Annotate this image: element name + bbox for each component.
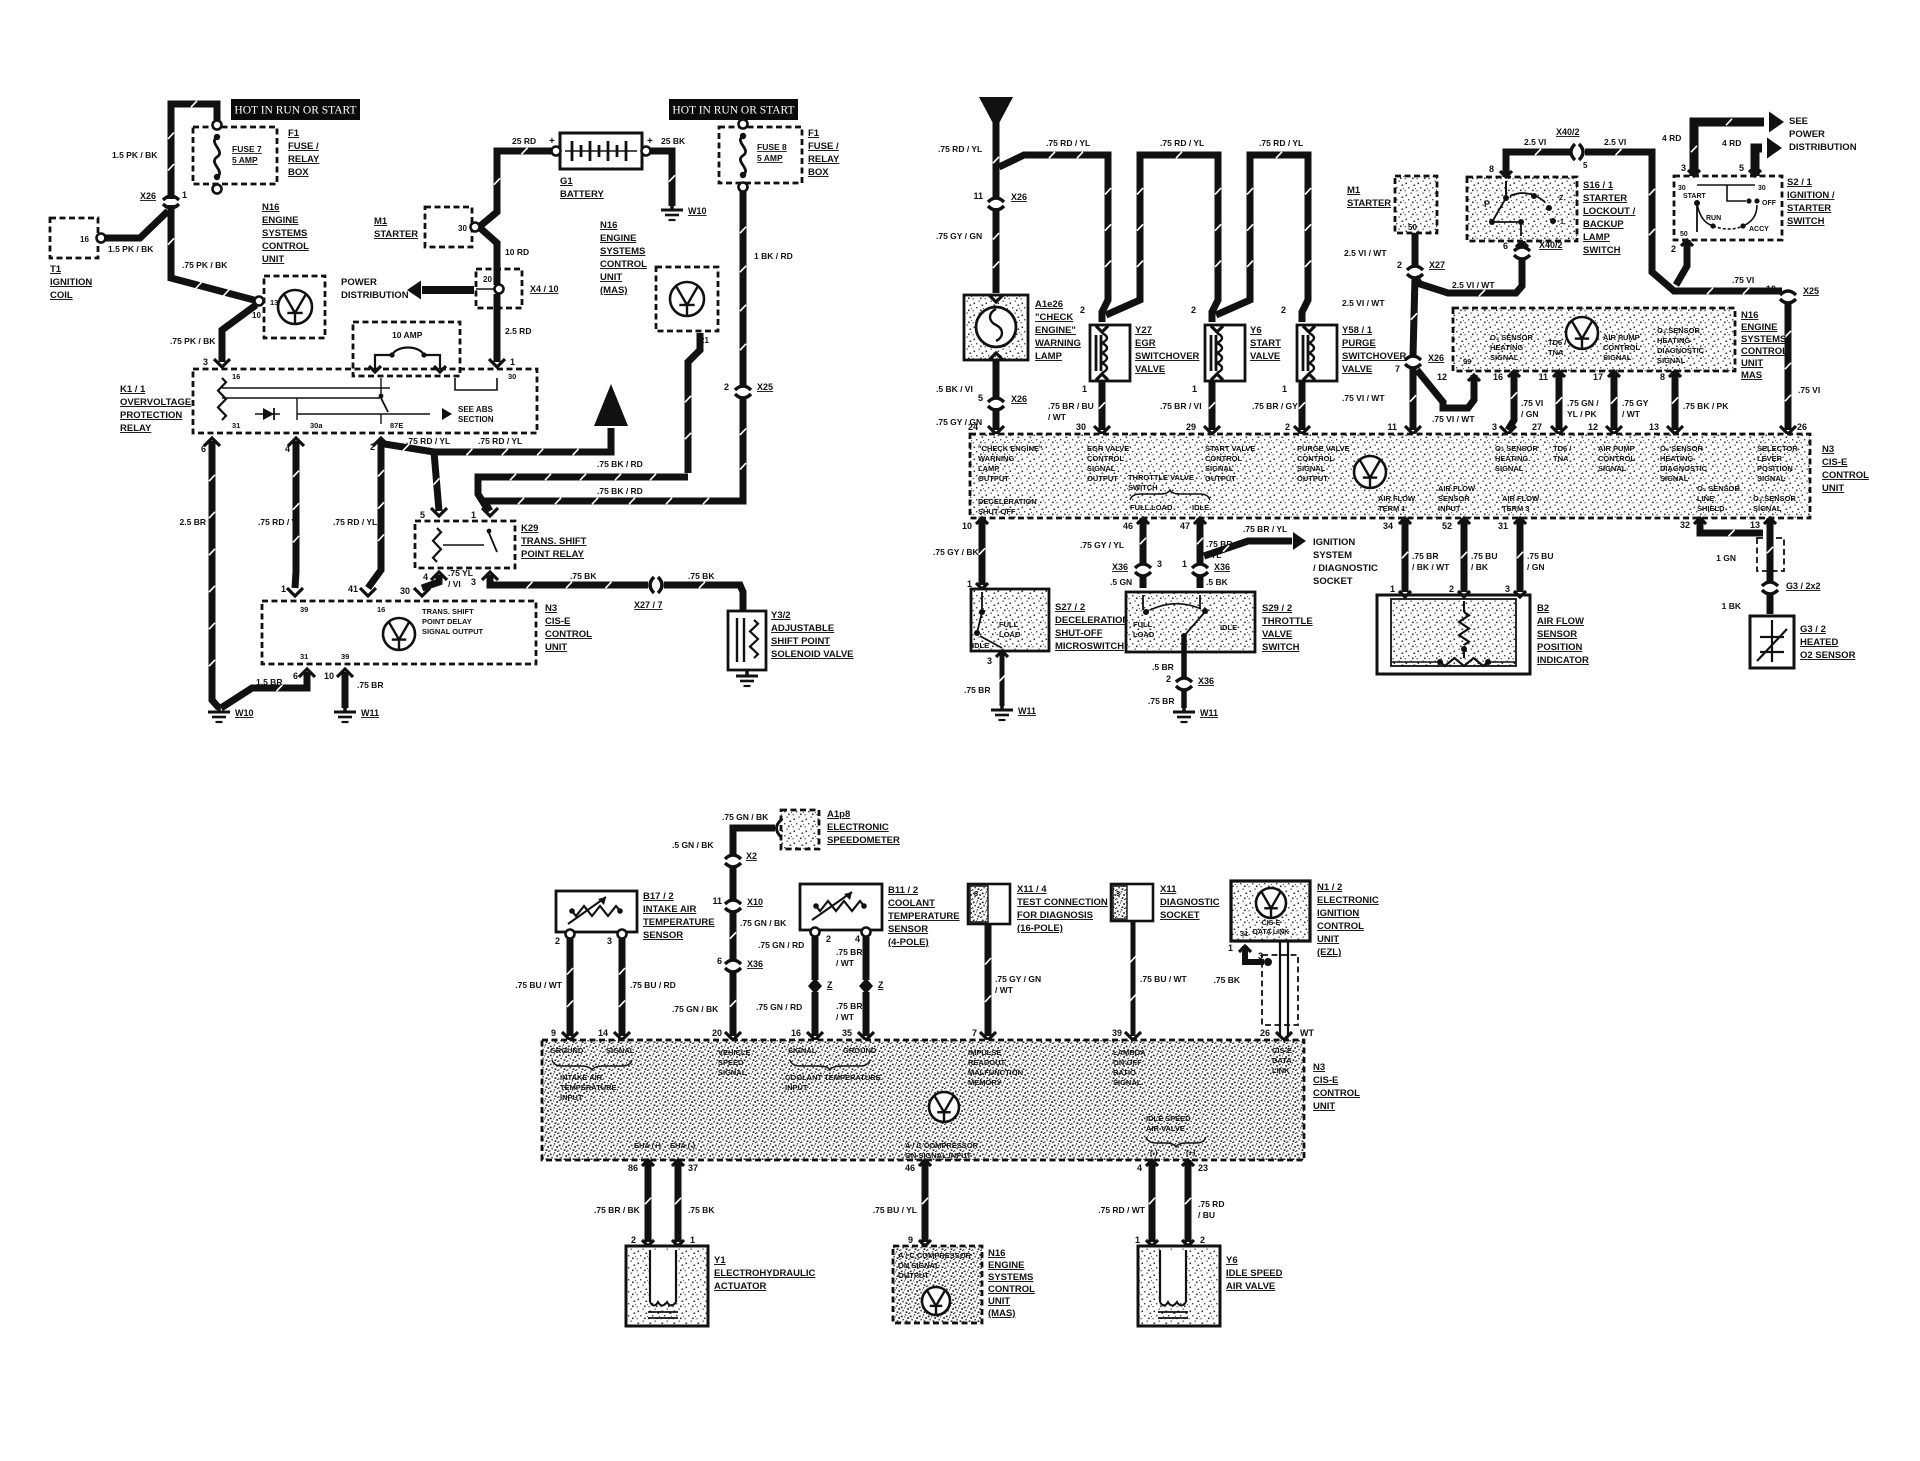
svg-text:SEE: SEE [1789, 116, 1808, 127]
svg-text:CIS-E: CIS-E [1272, 1046, 1292, 1055]
electrohydraulic actuator branch [642, 1160, 654, 1166]
svg-text:FULL LOAD: FULL LOAD [1130, 503, 1173, 512]
svg-text:COIL: COIL [50, 290, 73, 301]
starter lockout/backup lamp switch S16/1 [1467, 177, 1577, 241]
svg-text:CONTROL: CONTROL [1598, 454, 1635, 463]
svg-text:(EZL): (EZL) [1317, 947, 1341, 958]
svg-text:IGNITION /: IGNITION / [1787, 190, 1835, 201]
10 AMP fuse box [353, 322, 460, 376]
svg-text:W10: W10 [235, 708, 254, 718]
wire A to X26 pin11 [993, 122, 1000, 198]
svg-text:MICROSWITCH: MICROSWITCH [1055, 641, 1124, 652]
K29 bottom pins [431, 572, 447, 580]
wire fuse8 down to X25 [740, 191, 747, 386]
wire K1/1 pin4 to N3 pin1 [295, 441, 296, 588]
svg-text:.75 BK / RD: .75 BK / RD [597, 459, 643, 469]
svg-text:SEE ABS: SEE ABS [458, 405, 493, 414]
svg-text:99: 99 [1463, 357, 1471, 366]
svg-text:SOCKET: SOCKET [1160, 910, 1200, 921]
svg-text:/ BK: / BK [1471, 562, 1489, 572]
svg-text:52: 52 [1442, 521, 1452, 531]
svg-text:CONTROL: CONTROL [1313, 1088, 1360, 1099]
battery G1 [560, 133, 642, 169]
svg-text:.75 BR / VI: .75 BR / VI [1160, 401, 1202, 411]
svg-text:HEATING.: HEATING. [1495, 454, 1530, 463]
svg-text:RELAY: RELAY [808, 154, 840, 165]
svg-text:.75 BR: .75 BR [357, 680, 383, 690]
svg-text:32: 32 [1680, 520, 1690, 530]
svg-text:CONTROL: CONTROL [1603, 343, 1640, 352]
svg-text:1: 1 [1192, 384, 1197, 394]
check engine warning lamp A1e26 [964, 295, 1028, 360]
svg-text:/ WT: / WT [1048, 412, 1067, 422]
svg-text:47: 47 [1180, 521, 1190, 531]
wire K29 pin4 to N3 pin30 [422, 575, 439, 588]
ignition/starter switch S2/1 [1674, 176, 1782, 240]
MAS bottom pins wires to N3 [1508, 371, 1520, 377]
svg-text:8: 8 [1489, 164, 1494, 174]
svg-text:X36: X36 [1112, 562, 1128, 572]
ground Y3/2 [745, 670, 749, 676]
svg-text:CONTROL: CONTROL [1297, 454, 1334, 463]
svg-text:.75 RD / YL: .75 RD / YL [1259, 138, 1303, 148]
svg-text:CIS-E: CIS-E [1822, 457, 1847, 468]
svg-text:31: 31 [300, 652, 308, 661]
svg-text:/ WT: / WT [995, 985, 1014, 995]
connector G3/2x2 [1762, 582, 1778, 586]
svg-text:LOAD: LOAD [999, 630, 1021, 639]
svg-text:/ BK / WT: / BK / WT [1412, 562, 1450, 572]
wire to heated O2 sensor [1767, 593, 1774, 614]
svg-text:ENGINE: ENGINE [988, 1260, 1024, 1271]
svg-text:7: 7 [1395, 364, 1400, 374]
svg-text:PROTECTION: PROTECTION [120, 410, 182, 421]
svg-text:30a: 30a [310, 421, 323, 430]
svg-text:1: 1 [1135, 1235, 1140, 1245]
svg-text:1 BK / RD: 1 BK / RD [754, 251, 793, 261]
svg-text:CONTROL: CONTROL [1317, 921, 1364, 932]
svg-text:LOAD: LOAD [1133, 630, 1155, 639]
electronic ignition control unit N1/2 (EZL) [1231, 881, 1310, 941]
svg-text:TEMPERATURE: TEMPERATURE [888, 911, 960, 922]
svg-text:10 AMP: 10 AMP [392, 330, 423, 340]
svg-text:5 AMP: 5 AMP [757, 153, 783, 163]
svg-text:AIR PUMP: AIR PUMP [1598, 444, 1635, 453]
svg-text:9: 9 [908, 1235, 913, 1245]
svg-text:2: 2 [1559, 195, 1563, 202]
svg-text:G1: G1 [560, 176, 573, 187]
svg-text:1.5 BR: 1.5 BR [256, 677, 282, 687]
svg-text:16: 16 [80, 235, 89, 244]
ignition coil T1 [50, 218, 98, 258]
svg-text:SIGNAL: SIGNAL [1113, 1078, 1142, 1087]
svg-text:.75 BK / RD: .75 BK / RD [597, 486, 643, 496]
svg-text:SIGNAL: SIGNAL [1603, 353, 1632, 362]
svg-text:MALFUNCTION: MALFUNCTION [968, 1068, 1023, 1077]
svg-text:30: 30 [508, 372, 516, 381]
svg-text:FULL: FULL [1133, 620, 1153, 629]
rd/yl feed bus 3 [1216, 155, 1308, 322]
svg-text:ACCY: ACCY [1749, 226, 1769, 233]
wire K1/1 pin2 to N3 pin41 [368, 441, 381, 588]
wire X26 pin5 to N3 pin24 [993, 408, 1000, 430]
svg-text:IDLE: IDLE [972, 641, 989, 650]
svg-text:EHA (+): EHA (+) [634, 1141, 662, 1150]
svg-text:START: START [1683, 193, 1707, 200]
svg-text:.75 RD / YL: .75 RD / YL [478, 436, 522, 446]
svg-text:LAMP: LAMP [1583, 232, 1611, 243]
svg-text:46: 46 [905, 1163, 915, 1173]
connector X25 right [1780, 291, 1796, 295]
svg-text:SWITCH: SWITCH [1787, 216, 1825, 227]
svg-text:+: + [549, 136, 555, 147]
svg-text:X10: X10 [747, 897, 763, 907]
svg-text:.5 BK: .5 BK [1206, 577, 1229, 587]
svg-text:.75 BU / WT: .75 BU / WT [515, 980, 563, 990]
svg-text:SIGNAL: SIGNAL [718, 1068, 747, 1077]
svg-text:TERM 3: TERM 3 [1502, 504, 1530, 513]
svg-text:A1p8: A1p8 [827, 809, 850, 820]
svg-text:CONTROL: CONTROL [262, 241, 309, 252]
HOT IN RUN OR START label 2 [669, 99, 798, 120]
svg-text:.75 BK: .75 BK [688, 1205, 715, 1215]
svg-text:4: 4 [285, 444, 290, 454]
rd/yl feed bus 2 [1106, 155, 1218, 322]
svg-text:N3: N3 [1313, 1062, 1325, 1073]
svg-text:ENGINE": ENGINE" [1035, 325, 1076, 336]
svg-text:1: 1 [1228, 943, 1233, 953]
svg-text:SIGNAL: SIGNAL [1087, 464, 1116, 473]
svg-text:3: 3 [471, 577, 476, 587]
rd/yl feed bus 1 [999, 155, 1108, 322]
svg-text:SIGNAL: SIGNAL [606, 1046, 635, 1055]
svg-text:SOCKET: SOCKET [1313, 576, 1353, 587]
svg-text:.75 BR: .75 BR [836, 947, 862, 957]
svg-text:/ WT: / WT [1622, 409, 1641, 419]
svg-text:.75 GY / YL: .75 GY / YL [1080, 540, 1124, 550]
svg-text:THROTTLE VALVE: THROTTLE VALVE [1128, 473, 1194, 482]
svg-text:2: 2 [1449, 584, 1454, 594]
ground W10 battery [670, 204, 674, 210]
svg-text:SWITCH: SWITCH [1128, 483, 1158, 492]
svg-text:READOUT,: READOUT, [968, 1058, 1006, 1067]
svg-text:6: 6 [201, 444, 206, 454]
wire N3 pin31 to ground W10 [221, 672, 307, 708]
svg-text:UNIT: UNIT [988, 1296, 1010, 1307]
svg-text:COOLANT: COOLANT [888, 898, 935, 909]
connector X26 pin 5 [988, 398, 1004, 402]
connector X40/2 upper [1571, 144, 1575, 160]
svg-text:IGNITION: IGNITION [1313, 537, 1355, 548]
purge switchover valve Y58/1 [1297, 325, 1337, 381]
svg-text:UNIT: UNIT [545, 642, 567, 653]
svg-text:2: 2 [1397, 260, 1402, 270]
svg-text:PURGE VALVE: PURGE VALVE [1297, 444, 1350, 453]
coolant temperature sensor B11/2 [800, 884, 882, 930]
svg-text:TEMPERATURE: TEMPERATURE [643, 917, 715, 928]
svg-text:TRANS. SHIFT: TRANS. SHIFT [521, 536, 587, 547]
svg-text:SWITCH: SWITCH [1262, 642, 1300, 653]
svg-text:31: 31 [1498, 521, 1508, 531]
svg-text:.75 BK: .75 BK [570, 571, 597, 581]
wire X27 down to X26 pin7 [1413, 277, 1415, 356]
connector Z (right) [859, 978, 873, 994]
svg-text:5: 5 [420, 510, 425, 520]
svg-text:ELECTRONIC: ELECTRONIC [827, 822, 889, 833]
svg-text:PURGE: PURGE [1342, 338, 1376, 349]
svg-text:SYSTEMS: SYSTEMS [600, 246, 645, 257]
svg-text:.75 GY / GN: .75 GY / GN [995, 974, 1041, 984]
svg-text:/ WT: / WT [836, 1012, 855, 1022]
svg-text:POWER: POWER [1789, 129, 1825, 140]
throttle valve switch S29/2 [1126, 592, 1255, 652]
svg-text:F1: F1 [288, 128, 300, 139]
svg-text:EGR VALVE: EGR VALVE [1087, 444, 1129, 453]
svg-text:.75 BU: .75 BU [1527, 551, 1553, 561]
wire X27 split right to X40/2 [1415, 258, 1522, 293]
svg-text:1: 1 [1082, 384, 1087, 394]
wire X2 to X10 [730, 866, 737, 900]
svg-text:SYSTEMS: SYSTEMS [988, 1272, 1033, 1283]
svg-text:DISTRIBUTION: DISTRIBUTION [1789, 142, 1857, 153]
svg-text:(4-POLE): (4-POLE) [888, 937, 929, 948]
wire S16/1 pin8 via X40/2 upper [1506, 152, 1570, 177]
svg-text:SIGNAL: SIGNAL [1297, 464, 1326, 473]
wire X25 to N3 pin26 [1785, 302, 1792, 430]
svg-text:9: 9 [551, 1028, 556, 1038]
svg-text:SELECTOR: SELECTOR [1757, 444, 1798, 453]
svg-text:IMPULSE: IMPULSE [968, 1048, 1001, 1057]
svg-text:SIGNAL: SIGNAL [1660, 474, 1689, 483]
svg-text:AIR FLOW: AIR FLOW [1378, 494, 1416, 503]
svg-text:3: 3 [1505, 584, 1510, 594]
svg-text:W11: W11 [1018, 706, 1036, 716]
svg-text:1: 1 [1282, 384, 1287, 394]
svg-text:11: 11 [973, 191, 983, 201]
svg-text:ADJUSTABLE: ADJUSTABLE [771, 623, 834, 634]
svg-text:ON SIGNAL: ON SIGNAL [898, 1261, 940, 1270]
wire battery right to ground W10 [650, 151, 672, 206]
N3 bottom: deceleration microswitch branch [976, 518, 988, 524]
heated O2 sensor G3/2 [1750, 616, 1794, 668]
A/C compressor N16 MAS box [893, 1246, 982, 1323]
svg-text:UNIT: UNIT [262, 254, 284, 265]
svg-text:5: 5 [978, 393, 983, 403]
svg-text:4: 4 [855, 934, 860, 944]
svg-text:10: 10 [1766, 284, 1776, 294]
svg-text:2: 2 [1281, 305, 1286, 315]
svg-text:AIR FLOW: AIR FLOW [1537, 616, 1584, 627]
svg-text:SENSOR: SENSOR [643, 930, 683, 941]
svg-text:ENGINE: ENGINE [262, 215, 298, 226]
svg-text:POWER: POWER [341, 277, 377, 288]
svg-text:1: 1 [1182, 559, 1187, 569]
connector X26 pin 7 [1405, 356, 1421, 360]
svg-text:CONTROL: CONTROL [1087, 454, 1124, 463]
svg-text:.75 BR: .75 BR [964, 685, 990, 695]
rd/yl bus to arrow A [378, 428, 611, 452]
starter M1 (right) [1395, 176, 1437, 233]
svg-text:START VALVE: START VALVE [1205, 444, 1255, 453]
svg-text:41: 41 [348, 584, 358, 594]
svg-text:/ GN: / GN [1527, 562, 1544, 572]
svg-text:CIS-E: CIS-E [545, 616, 570, 627]
wire X10 to X36 [730, 911, 737, 960]
svg-text:13: 13 [1750, 520, 1760, 530]
svg-text:SIGNAL: SIGNAL [788, 1046, 817, 1055]
svg-text:LAMP: LAMP [1035, 351, 1063, 362]
svg-text:2: 2 [1200, 1235, 1205, 1245]
svg-text:.75 GN / RD: .75 GN / RD [758, 940, 804, 950]
svg-text:.5 BR: .5 BR [1152, 662, 1174, 672]
K1/1 bottom pins [204, 438, 220, 446]
svg-text:S2 / 1: S2 / 1 [1787, 177, 1813, 188]
svg-text:K29: K29 [521, 523, 538, 534]
svg-text:UNIT: UNIT [1313, 1101, 1335, 1112]
svg-text:SIGNAL: SIGNAL [1205, 464, 1234, 473]
engine systems control unit N16 (MAS) [656, 267, 718, 331]
svg-text:OFF: OFF [1762, 200, 1777, 207]
svg-text:2.5 VI: 2.5 VI [1604, 137, 1626, 147]
connector X25 left [735, 386, 751, 390]
svg-text:POINT RELAY: POINT RELAY [521, 549, 585, 560]
svg-text:O₂ SENSOR: O₂ SENSOR [1660, 444, 1704, 453]
svg-text:26: 26 [1260, 1028, 1270, 1038]
svg-text:COOLANT TEMPERATURE: COOLANT TEMPERATURE [785, 1073, 881, 1082]
svg-text:DECELERATION: DECELERATION [978, 497, 1037, 506]
svg-text:N3: N3 [545, 603, 557, 614]
svg-text:LAMBDA: LAMBDA [1113, 1048, 1146, 1057]
svg-text:31: 31 [232, 421, 240, 430]
svg-text:/ GN: / GN [1521, 409, 1538, 419]
svg-text:30: 30 [1076, 422, 1086, 432]
connector X27 [1407, 266, 1423, 270]
svg-text:RATIO: RATIO [1113, 1068, 1136, 1077]
svg-text:T1: T1 [50, 264, 62, 275]
svg-text:.75 VI: .75 VI [1798, 385, 1820, 395]
power distribution arrow [422, 286, 474, 294]
svg-text:4: 4 [423, 572, 428, 582]
air flow sensor position indicator B2 [1377, 595, 1530, 674]
svg-text:O₂ SENSOR: O₂ SENSOR [1495, 444, 1539, 453]
svg-text:THROTTLE: THROTTLE [1262, 616, 1313, 627]
svg-text:.75 BR: .75 BR [836, 1001, 862, 1011]
svg-text:20: 20 [483, 275, 492, 284]
wire S29/2 to ground W11 [1181, 638, 1187, 678]
svg-text:TEMPERATURE: TEMPERATURE [560, 1083, 617, 1092]
svg-text:VALVE: VALVE [1342, 364, 1372, 375]
wire speedometer to X2 [733, 828, 775, 855]
svg-text:87E: 87E [390, 421, 403, 430]
svg-text:1: 1 [690, 1235, 695, 1245]
svg-text:2: 2 [1166, 674, 1171, 684]
svg-text:X25: X25 [757, 382, 773, 392]
svg-text:3: 3 [1681, 163, 1686, 173]
trans shift point relay K29 [415, 521, 515, 568]
svg-text:BACKUP: BACKUP [1583, 219, 1624, 230]
svg-text:.75 RD / YL: .75 RD / YL [333, 517, 377, 527]
4 RD arrow to power distribution 2 [1755, 148, 1762, 176]
svg-text:FULL: FULL [999, 620, 1019, 629]
svg-text:.75 BU: .75 BU [1471, 551, 1497, 561]
svg-text:34: 34 [1383, 521, 1393, 531]
svg-text:.75 GN / RD: .75 GN / RD [756, 1002, 802, 1012]
svg-text:MAS: MAS [1741, 370, 1762, 381]
svg-text:X36: X36 [1214, 562, 1230, 572]
svg-text:OUTPUT: OUTPUT [978, 474, 1009, 483]
A/C compressor signal branch [919, 1160, 931, 1166]
svg-text:X4 / 10: X4 / 10 [530, 284, 559, 294]
svg-text:.75 PK / BK: .75 PK / BK [170, 336, 216, 346]
svg-text:SIGNAL: SIGNAL [1598, 464, 1627, 473]
svg-text:G3 / 2: G3 / 2 [1800, 624, 1826, 635]
diagnostic socket X11 [1111, 884, 1153, 921]
svg-text:.75 BK: .75 BK [1214, 975, 1241, 985]
wire Y27 pin1 to N3 pin30 [1099, 381, 1106, 430]
svg-text:B11 / 2: B11 / 2 [888, 885, 918, 896]
connector X40/2 lower [1514, 247, 1530, 251]
HOT IN RUN OR START label 1 [231, 99, 360, 120]
svg-text:"CHECK ENGINE": "CHECK ENGINE" [978, 444, 1043, 453]
svg-text:EGR: EGR [1135, 338, 1156, 349]
svg-text:BOX: BOX [808, 167, 829, 178]
svg-text:1: 1 [1560, 219, 1564, 226]
svg-text:TERM 1: TERM 1 [1378, 504, 1406, 513]
svg-text:6: 6 [717, 956, 722, 966]
svg-text:SHIELD: SHIELD [1697, 504, 1725, 513]
wire MAS pin21 down to bus [688, 333, 700, 473]
svg-text:O₂ SENSOR: O₂ SENSOR [1657, 326, 1701, 335]
svg-text:STARTER: STARTER [1787, 203, 1831, 214]
wire X11 to N3 pin39 [1131, 921, 1136, 1036]
svg-text:.75 GN / BK: .75 GN / BK [722, 812, 769, 822]
svg-text:AIR FLOW: AIR FLOW [1438, 484, 1476, 493]
svg-text:DIAGNOSTIC: DIAGNOSTIC [1160, 897, 1220, 908]
svg-text:12: 12 [1588, 422, 1598, 432]
connector X26 pin 11 [988, 198, 1004, 202]
svg-text:6: 6 [293, 671, 298, 681]
svg-text:SHUT-OFF: SHUT-OFF [1055, 628, 1103, 639]
svg-text:.5 GN / BK: .5 GN / BK [672, 840, 714, 850]
svg-text:.75 BR / BK: .75 BR / BK [594, 1205, 641, 1215]
svg-text:2.5 RD: 2.5 RD [505, 326, 531, 336]
svg-text:39: 39 [1112, 1028, 1122, 1038]
svg-text:3: 3 [1116, 889, 1120, 898]
start valve Y6 [1205, 325, 1245, 381]
svg-text:Y6: Y6 [1226, 1255, 1238, 1266]
svg-text:AIR VALVE: AIR VALVE [1146, 1124, 1185, 1133]
svg-text:11: 11 [1387, 422, 1397, 432]
svg-text:17: 17 [1593, 372, 1603, 382]
svg-text:(16-POLE): (16-POLE) [1017, 923, 1063, 934]
svg-text:SENSOR: SENSOR [888, 924, 928, 935]
svg-text:/ DIAGNOSTIC: / DIAGNOSTIC [1313, 563, 1378, 574]
svg-text:TNA: TNA [1548, 348, 1564, 357]
svg-text:WARNING: WARNING [1035, 338, 1081, 349]
svg-text:SYSTEMS: SYSTEMS [1741, 334, 1786, 345]
wire N16 to K1/1 pin 3 [222, 305, 256, 362]
svg-text:A / C COMPRESSOR: A / C COMPRESSOR [898, 1251, 972, 1260]
svg-text:7: 7 [972, 1028, 977, 1038]
wire X26 pin7 to N3 pin11 [1410, 367, 1417, 430]
svg-text:2.5 VI: 2.5 VI [1524, 137, 1546, 147]
svg-text:A1e26: A1e26 [1035, 299, 1063, 310]
O2 sensor shield pins 32/13 [1694, 518, 1706, 524]
svg-text:10: 10 [324, 671, 334, 681]
svg-text:SIGNAL: SIGNAL [1757, 474, 1786, 483]
svg-text:P: P [1484, 199, 1490, 209]
svg-text:5 AMP: 5 AMP [232, 155, 258, 165]
